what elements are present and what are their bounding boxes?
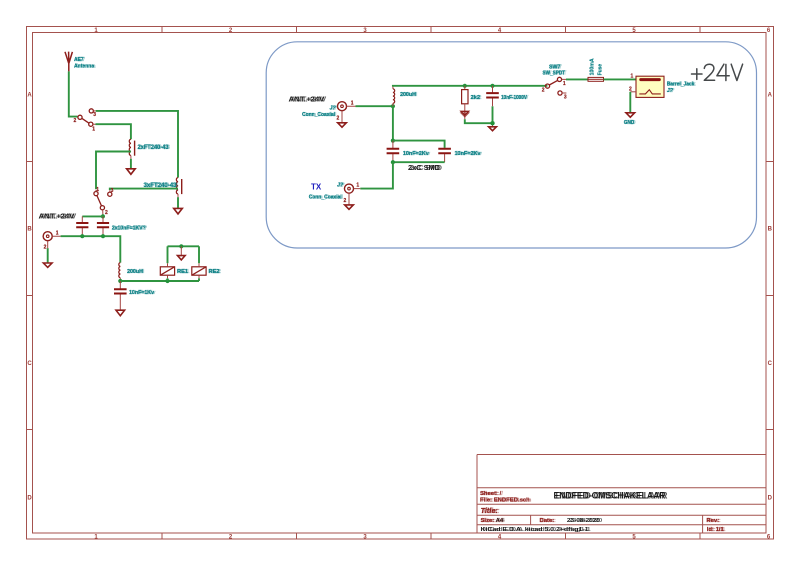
svg-text:Id: 1/1: Id: 1/1 [708, 527, 726, 533]
capacitor C4 10nF=2Kv [444, 154, 446, 162]
wire SW7 to fuse [566, 78, 588, 80]
junction C2 [101, 234, 105, 238]
svg-text:Title:: Title: [482, 506, 500, 515]
ground under C6 [116, 310, 125, 316]
svg-text:SW_SPDT: SW_SPDT [544, 70, 567, 76]
inductor L2 3xFT240-43 [176, 178, 178, 194]
junction R1 top [463, 84, 467, 88]
border column labels top [94, 28, 771, 34]
capacitor C1 (2x10nF) [81, 216, 83, 236]
inductor L4 200uH [119, 263, 121, 278]
svg-text:3: 3 [111, 188, 114, 194]
junction C1 [80, 234, 84, 238]
ground under TX connector [345, 205, 354, 209]
wire node A down [392, 106, 394, 140]
svg-text:A: A [768, 93, 773, 99]
wire antenna to SW1 [69, 71, 78, 116]
junction cap rail [391, 139, 395, 143]
svg-text:200uH: 200uH [128, 269, 144, 275]
svg-text:200uH: 200uH [401, 92, 417, 98]
svg-text:3: 3 [93, 112, 96, 118]
pin L4 bottom [119, 278, 121, 281]
svg-text:10nF-1000V: 10nF-1000V [502, 95, 528, 101]
junction cap bottom [391, 160, 395, 164]
wire SW1 throw1 to L1 top [96, 124, 131, 139]
svg-text:2x10nF=1KV?: 2x10nF=1KV? [113, 225, 147, 231]
svg-text:2xC SMD: 2xC SMD [410, 163, 442, 172]
wire relay top rail [168, 245, 200, 247]
svg-text:1: 1 [56, 230, 59, 236]
svg-text:2: 2 [542, 87, 545, 93]
svg-text:Conn_Coaxial: Conn_Coaxial [310, 194, 343, 200]
svg-text:B: B [27, 227, 32, 233]
svg-text:2xFT240-43: 2xFT240-43 [139, 145, 171, 151]
wire to relays [120, 280, 199, 282]
capacitor C2 (2x10nF) [102, 216, 104, 236]
label +24V (stroke style) [692, 64, 743, 80]
svg-text:J?: J? [668, 88, 675, 94]
junction RE1 bottom [165, 279, 169, 283]
junction SW2 common [101, 214, 105, 218]
junction node A [391, 104, 395, 108]
ground GND under jack [626, 113, 635, 117]
svg-text:1: 1 [356, 183, 359, 189]
svg-text:ANT.+24V: ANT.+24V [40, 211, 77, 220]
wire cap top rail [82, 215, 103, 217]
svg-text:GND: GND [625, 120, 636, 126]
relay RE2 [192, 267, 206, 275]
ground under R1 (small, doubled) [461, 111, 469, 115]
capacitor C6 10nF=1Kv [119, 281, 121, 310]
svg-text:10nF=2Kv: 10nF=2Kv [456, 151, 483, 157]
svg-text:ENDFED-OMSCHAKELAAR: ENDFED-OMSCHAKELAAR [556, 491, 668, 501]
ground under connector [43, 263, 52, 267]
wire RE1 top [167, 246, 169, 263]
svg-text:C: C [768, 361, 773, 367]
wire R1 bottom to gnd rail [465, 119, 493, 123]
title block [477, 455, 766, 534]
svg-text:2: 2 [44, 245, 47, 251]
wire RE2 top [198, 246, 200, 263]
capacitor C5 10nF-1000V [492, 86, 494, 107]
antenna AE7 [65, 52, 72, 72]
svg-text:ANT.+24V: ANT.+24V [290, 95, 327, 104]
junction gnd rail [490, 121, 494, 125]
svg-text:2: 2 [105, 210, 108, 216]
ground under L1 [130, 156, 132, 159]
junction L4/C6 [118, 279, 122, 283]
junction relay rail [179, 244, 183, 248]
svg-text:2: 2 [74, 118, 77, 124]
svg-text:1: 1 [351, 100, 354, 106]
svg-text:Date:: Date: [541, 518, 556, 524]
svg-text:RE1: RE1 [178, 269, 189, 275]
svg-text:2: 2 [337, 116, 340, 122]
svg-text:D: D [27, 496, 32, 502]
wire RE2 bottom [198, 278, 200, 281]
svg-text:1: 1 [563, 81, 566, 87]
switch SW2 (SPDT) [94, 190, 112, 217]
svg-text:C: C [27, 361, 32, 367]
inductor L1 2xFT240-43 [129, 139, 131, 155]
svg-text:3: 3 [564, 94, 567, 100]
fuse F1 100mA [588, 77, 604, 81]
svg-text:1: 1 [96, 187, 99, 193]
svg-text:KiCad E.D.A. kicad 5.0.2+dfsg: KiCad E.D.A. kicad 5.0.2+dfsg1-1 [483, 527, 592, 533]
switch SW1 (SPDT) [78, 109, 96, 126]
wire SW1 throw3 to L2 top [96, 111, 178, 178]
border row labels left [27, 93, 32, 502]
ground under ANT right connector [338, 123, 347, 127]
ground under L2 [177, 194, 179, 197]
svg-text:1: 1 [631, 74, 634, 80]
junction C5 top [490, 84, 494, 88]
ground under C5 [492, 123, 494, 126]
wire node ANT left [61, 236, 121, 262]
svg-text:100mA: 100mA [589, 58, 595, 75]
svg-text:File: ENDFED.sch: File: ENDFED.sch [482, 497, 532, 503]
svg-text:Barrel_Jack: Barrel_Jack [668, 82, 696, 88]
svg-text:D: D [768, 496, 773, 502]
border row labels right [768, 93, 773, 502]
wire cap bottom rail [393, 161, 445, 163]
connector J left (Conn_Coaxial) [43, 232, 52, 241]
svg-text:RE2: RE2 [210, 269, 221, 275]
wire top rail [393, 85, 548, 88]
wire to TX connector [360, 162, 393, 188]
capacitor C3 10nF=2Kv [392, 141, 394, 163]
svg-text:Size: A4: Size: A4 [482, 518, 505, 524]
wire connector to node [356, 105, 393, 107]
wire fuse to jack [604, 78, 637, 80]
wire L2 tap [110, 189, 178, 190]
svg-text:10nF=1Kv: 10nF=1Kv [130, 290, 156, 296]
svg-text:Conn_Coaxial: Conn_Coaxial [303, 112, 336, 118]
rounded group box [266, 42, 756, 248]
wire L1 tap [96, 152, 131, 190]
inductor L5 200uH [392, 86, 394, 106]
wire jack pin2 to gnd [629, 92, 631, 113]
svg-text:23-08-2020: 23-08-2020 [569, 518, 603, 524]
svg-text:2k2: 2k2 [472, 95, 482, 101]
svg-text:Antenna: Antenna [75, 64, 96, 70]
svg-text:Sheet: /: Sheet: / [482, 491, 504, 497]
svg-text:1: 1 [92, 127, 95, 133]
ground on relay rail [180, 246, 182, 255]
wire cap top rail [393, 141, 445, 148]
wire RE1 bottom [167, 278, 169, 281]
relay RE1 [160, 267, 174, 275]
resistor R1 2k2 [464, 86, 466, 90]
svg-text:AE7: AE7 [75, 57, 85, 63]
svg-text:A: A [27, 93, 32, 99]
border column labels bottom [94, 534, 771, 540]
svg-text:Fuse: Fuse [598, 64, 604, 76]
svg-text:TX: TX [311, 183, 322, 192]
svg-text:2: 2 [629, 87, 632, 93]
svg-text:10nF=2Kv: 10nF=2Kv [404, 151, 431, 157]
svg-text:B: B [768, 227, 773, 233]
svg-text:Rev:: Rev: [708, 518, 721, 524]
svg-text:2: 2 [344, 198, 347, 204]
wire connector pin2 down [47, 248, 49, 262]
